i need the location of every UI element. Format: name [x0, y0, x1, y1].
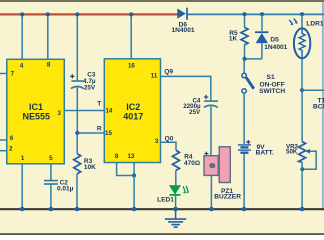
wire C3 column top	[76, 15, 78, 81]
svg-text:S1: S1	[267, 74, 275, 81]
node dot rail x22	[20, 12, 24, 16]
wire join to bottom rail	[133, 176, 135, 210]
capacitor C3	[70, 72, 96, 92]
ground symbol	[165, 209, 186, 227]
node dot rail bottom x134	[132, 207, 137, 212]
node dot rail x244	[242, 12, 246, 16]
wire rail blue segment after D6	[188, 13, 324, 15]
svg-text:LDR1: LDR1	[306, 21, 324, 28]
wire IC1 pin6 stub	[0, 139, 7, 141]
wire Q0 line pin3 to R4	[161, 142, 177, 150]
wire VR2 to bottom rail	[301, 162, 303, 209]
wire T1 node to VR2	[301, 90, 303, 141]
svg-text:SWITCH: SWITCH	[259, 88, 285, 95]
LDR LDR1	[289, 18, 324, 58]
node dot rail x131	[129, 12, 133, 16]
ground rail bottom	[0, 208, 324, 210]
svg-text:3: 3	[155, 138, 159, 145]
resistor R3	[74, 154, 96, 174]
wire Q9 line pin11 to C4	[161, 76, 211, 100]
svg-text:1N4001: 1N4001	[264, 44, 287, 51]
svg-text:25V: 25V	[189, 109, 201, 116]
wire IC2 pins 8 13 join	[117, 163, 135, 176]
svg-text:4017: 4017	[123, 112, 143, 122]
svg-text:15: 15	[105, 130, 112, 137]
wire D5 R5 node join	[245, 58, 263, 60]
wire rail to R5 D5	[244, 15, 246, 28]
svg-text:7: 7	[11, 71, 15, 78]
bottom border frame	[0, 233, 324, 235]
buzzer PZ1	[204, 147, 241, 201]
svg-text:LED1: LED1	[157, 197, 174, 204]
capacitor C2	[44, 180, 74, 193]
svg-text:D5: D5	[270, 37, 279, 44]
wire T1 base to right edge	[302, 89, 324, 91]
svg-text:13: 13	[127, 153, 134, 160]
svg-text:1: 1	[21, 155, 25, 162]
resistor R4	[173, 150, 201, 170]
wire R4 to LED	[175, 170, 177, 186]
node dot rail x77	[75, 12, 79, 16]
wire right-edge vertical	[322, 2, 324, 209]
node dot VR2 wiper join	[300, 167, 304, 171]
wire IC1 pin2 stub	[0, 150, 7, 152]
wire R3 to bottom rail	[76, 174, 78, 209]
svg-text:5: 5	[49, 155, 53, 162]
LED LED1	[157, 186, 189, 204]
svg-text:2: 2	[9, 145, 13, 152]
svg-text:1K: 1K	[229, 36, 238, 43]
wire battery to bottom rail	[243, 154, 245, 209]
svg-text:R: R	[97, 125, 102, 132]
wire C3 bottom to R node	[76, 87, 78, 133]
node dot rail x302	[300, 12, 304, 16]
diode D5	[255, 15, 288, 59]
node dot rail x262	[260, 12, 264, 16]
svg-text:16: 16	[128, 62, 135, 69]
wire node to S1	[243, 59, 245, 73]
svg-text:4: 4	[20, 62, 24, 69]
node dot R junction	[75, 131, 79, 135]
node dot rail x48	[46, 12, 50, 16]
svg-text:25V: 25V	[84, 84, 96, 91]
wire IC1 pin8 to rail	[47, 15, 49, 60]
top border frame	[0, 0, 324, 2]
wire C4 to buzzer	[210, 106, 212, 155]
svg-text:IC2: IC2	[126, 102, 140, 112]
node dot pins join	[132, 173, 136, 177]
svg-text:8: 8	[47, 62, 51, 69]
wire IC1 pin5 to C2	[50, 164, 52, 181]
svg-text:10K: 10K	[84, 164, 96, 171]
wire node T line pin3 to pin14	[64, 110, 104, 112]
switch S1	[242, 73, 285, 95]
svg-text:11: 11	[151, 73, 158, 80]
node dot rail bottom x211	[209, 207, 214, 212]
wire IC1 pin4 to rail	[21, 15, 23, 60]
wire R node down to R3	[76, 133, 78, 154]
wire LDR to T1 node	[301, 58, 303, 90]
node dot T1 base	[300, 88, 304, 92]
capacitor C4	[183, 95, 218, 116]
potentiometer VR2	[286, 142, 316, 170]
diode D6	[171, 8, 194, 34]
svg-text:BATT.: BATT.	[256, 150, 274, 157]
battery BATT 9V	[238, 140, 274, 157]
+9V rail red segment	[0, 13, 178, 15]
svg-text:BC548: BC548	[313, 104, 324, 111]
wire LED to bottom rail	[175, 195, 177, 209]
node dot rail bottom x244	[242, 207, 247, 212]
node dot S1 top	[242, 57, 246, 61]
svg-text:0.01µ: 0.01µ	[57, 186, 74, 193]
op IC2 4017 box	[104, 59, 160, 163]
resistor R5	[229, 27, 248, 44]
op IC1 NE555 box	[7, 59, 65, 164]
svg-text:NE555: NE555	[23, 111, 51, 121]
node dot rail bottom x22	[20, 207, 25, 212]
svg-text:1N4001: 1N4001	[171, 27, 194, 34]
svg-text:Q9: Q9	[164, 69, 173, 76]
node dot rail bottom x77	[75, 207, 80, 212]
wire buzzer to bottom rail	[210, 175, 212, 209]
svg-text:T: T	[97, 100, 101, 107]
wire S1 to battery	[243, 93, 245, 144]
node dot rail bottom x175	[173, 207, 178, 212]
svg-text:470Ω: 470Ω	[184, 160, 200, 167]
node dot rail bottom x302	[300, 207, 305, 212]
wire node R line to pin15	[77, 132, 104, 134]
svg-text:14: 14	[105, 108, 112, 115]
svg-text:6: 6	[10, 135, 14, 142]
wire IC2 pin16 to rail	[130, 15, 132, 60]
svg-text:BUZZER: BUZZER	[214, 194, 241, 201]
node dot rail bottom x51	[49, 207, 54, 212]
wire IC1 pin1 to bottom rail	[21, 164, 23, 209]
wire rail to LDR	[301, 15, 303, 29]
svg-text:3: 3	[57, 110, 61, 117]
wire C2 to bottom rail	[50, 184, 52, 209]
wire IC1 pin7 stub	[0, 73, 7, 75]
wire R5 to node	[244, 45, 246, 59]
svg-text:8: 8	[115, 153, 119, 160]
svg-text:50K: 50K	[286, 149, 298, 156]
svg-text:Q0: Q0	[165, 135, 174, 142]
